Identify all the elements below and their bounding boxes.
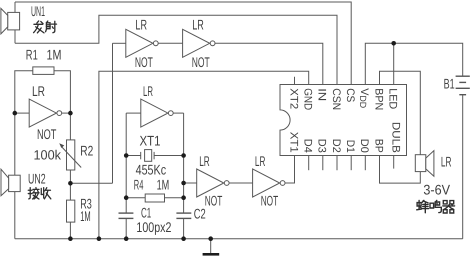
svg-text:GND: GND [302, 88, 314, 110]
pin XT2 stub [294, 77, 296, 85]
junction dot U5 input [181, 181, 186, 186]
wire: R4 right lead [165, 197, 184, 199]
potentiometer R2 [59, 140, 81, 170]
svg-text:NOT: NOT [192, 54, 210, 70]
wire: UN2 top terminal to node A [14, 113, 16, 175]
speaker UN1 [1, 8, 20, 34]
svg-text:UN2: UN2 [28, 171, 46, 187]
op-amp U4 inverter NOT [141, 99, 173, 127]
wire: C1 bottom lead [125, 218, 127, 238]
svg-text:CSN: CSN [330, 88, 342, 110]
svg-text:IN: IN [316, 88, 328, 101]
wire: battery negative to ground rail [462, 95, 464, 239]
capacitor C2 [176, 213, 191, 218]
wire: LED pin drop from positive rail [393, 43, 395, 84]
svg-text:3-6V: 3-6V [423, 181, 450, 197]
svg-text:BPN: BPN [372, 88, 384, 110]
wire: U4 output to right oscillator column [173, 112, 183, 114]
svg-text:D3: D3 [316, 139, 328, 153]
ground [203, 239, 220, 256]
svg-text:CS: CS [344, 88, 356, 102]
wire: BP pin to buzzer bottom [380, 156, 421, 184]
junction dot crystal left [124, 153, 129, 158]
wire: R4 left lead [126, 197, 145, 199]
wire: inverter U1 output [62, 112, 71, 114]
svg-text:XT2: XT2 [287, 88, 299, 109]
svg-text:D2: D2 [330, 139, 342, 153]
wire: node B to potentiometer R2 top [69, 113, 71, 140]
svg-text:NOT: NOT [205, 193, 223, 209]
junction dot crystal right [181, 153, 186, 158]
svg-text:VDD: VDD [358, 88, 370, 108]
resistor R1 [33, 67, 54, 75]
pin D1 stub [350, 156, 352, 171]
svg-text:1M: 1M [80, 208, 91, 224]
label 蜂鸣器 [417, 200, 455, 213]
op-amp U1 inverter NOT [29, 99, 61, 127]
op-amp U5 inverter NOT [197, 169, 229, 197]
wire: GND pin to ground rail [99, 71, 309, 238]
wire: R2 bottom to node C [69, 170, 71, 183]
wire: inverter U1 input [15, 112, 29, 114]
svg-text:DULB: DULB [390, 122, 402, 153]
junction dot C1 ground [124, 236, 129, 241]
wire: U6 output to XT1 pin [285, 156, 295, 184]
svg-text:1M: 1M [47, 46, 62, 62]
label 发射 [34, 21, 57, 33]
svg-text:LR: LR [199, 153, 210, 169]
svg-text:BP: BP [372, 139, 384, 153]
svg-text:R2: R2 [80, 142, 93, 158]
svg-text:XT1: XT1 [287, 132, 299, 153]
wire: R3 top lead [69, 183, 71, 200]
wire: BPN pin to buzzer top [380, 71, 421, 154]
resistor R3 [67, 200, 75, 222]
wire: right oscillator column [183, 113, 185, 213]
svg-text:LR: LR [255, 153, 266, 169]
svg-text:R4: R4 [134, 176, 144, 192]
svg-text:LR: LR [135, 17, 147, 33]
op-amp U6 inverter NOT [253, 169, 285, 197]
buzzer speaker LR [415, 151, 434, 177]
op-amp U3 inverter NOT [183, 29, 215, 57]
battery B1 [456, 76, 470, 95]
svg-text:R1: R1 [26, 46, 38, 62]
junction dot GND ground [97, 236, 102, 241]
wire: U5 output to U6 input [229, 182, 253, 184]
wire: crystal left lead [126, 155, 141, 157]
junction dot LED rail [391, 41, 396, 46]
wire: UN2 bottom terminal to ground rail [14, 192, 16, 239]
svg-text:UN1: UN1 [31, 3, 45, 19]
wire: oscillator inverter U4 input drop [126, 112, 141, 114]
svg-text:XT1: XT1 [140, 133, 161, 149]
svg-text:LR: LR [143, 83, 153, 99]
node A junction dot [13, 111, 18, 116]
svg-text:NOT: NOT [135, 54, 153, 70]
wire: left oscillator column [125, 113, 127, 213]
wire: C2 bottom lead [183, 218, 185, 238]
pin D4 stub [308, 156, 310, 171]
wire: R3 bottom lead [69, 222, 71, 239]
junction dot R4 left [124, 195, 129, 200]
wire: U3 output to IN pin [215, 43, 323, 84]
svg-text:LED: LED [387, 88, 399, 109]
svg-text:455Kc: 455Kc [136, 162, 167, 178]
wire: UN1 top terminal [14, 2, 16, 12]
wire: R1 left lead and feedback drop [15, 71, 33, 113]
svg-text:LR: LR [441, 153, 452, 169]
svg-text:D0: D0 [358, 139, 370, 153]
junction dot C2 ground [181, 236, 186, 241]
svg-text:NOT: NOT [261, 193, 279, 209]
pin D2 stub [336, 156, 338, 171]
crystal XT1 [141, 150, 154, 162]
wire: R1 right lead and feedback drop [54, 71, 70, 113]
IC U7 body [280, 85, 407, 156]
junction dot R3 ground [68, 236, 73, 241]
junction dot R4 right [181, 195, 186, 200]
wire: top rail from UN1 top terminal to CS pin [15, 2, 351, 85]
op-amp U2 inverter NOT [126, 29, 158, 57]
wire: node C to oscillator input drop [70, 182, 112, 184]
svg-text:LR: LR [192, 17, 204, 33]
wire: drop from top gate chain input [112, 43, 114, 183]
speaker UN2 [1, 169, 20, 196]
svg-text:1M: 1M [157, 176, 170, 192]
wire: UN1 bottom rail to CSN pin [15, 15, 337, 84]
resistor R4 [145, 194, 164, 202]
wire: UN1 bottom terminal [14, 30, 16, 43]
pin DULB stub [393, 156, 395, 169]
wire: bottom chain inverter U5 input [184, 182, 197, 184]
pin D0 stub [364, 156, 366, 171]
node C junction dot [68, 181, 73, 186]
svg-text:B1: B1 [444, 76, 455, 92]
svg-text:D1: D1 [344, 140, 356, 153]
pin D3 stub [322, 156, 324, 171]
svg-text:D4: D4 [302, 139, 314, 153]
wire: U2 output to U3 input [158, 42, 182, 44]
wire: bottom ground rail [15, 238, 463, 240]
svg-text:100px2: 100px2 [136, 219, 171, 235]
svg-text:100k: 100k [34, 147, 62, 162]
wire: top chain inverter U2 input [113, 42, 126, 44]
node B junction dot [68, 111, 73, 116]
capacitor C1 [119, 213, 134, 218]
junction dot ground symbol [208, 236, 213, 241]
wire: Vdd pin to battery positive rail [365, 43, 462, 84]
wire: crystal right lead [154, 155, 184, 157]
svg-text:LR: LR [32, 83, 45, 99]
svg-text:NOT: NOT [37, 126, 57, 142]
label 接收 [28, 188, 51, 199]
